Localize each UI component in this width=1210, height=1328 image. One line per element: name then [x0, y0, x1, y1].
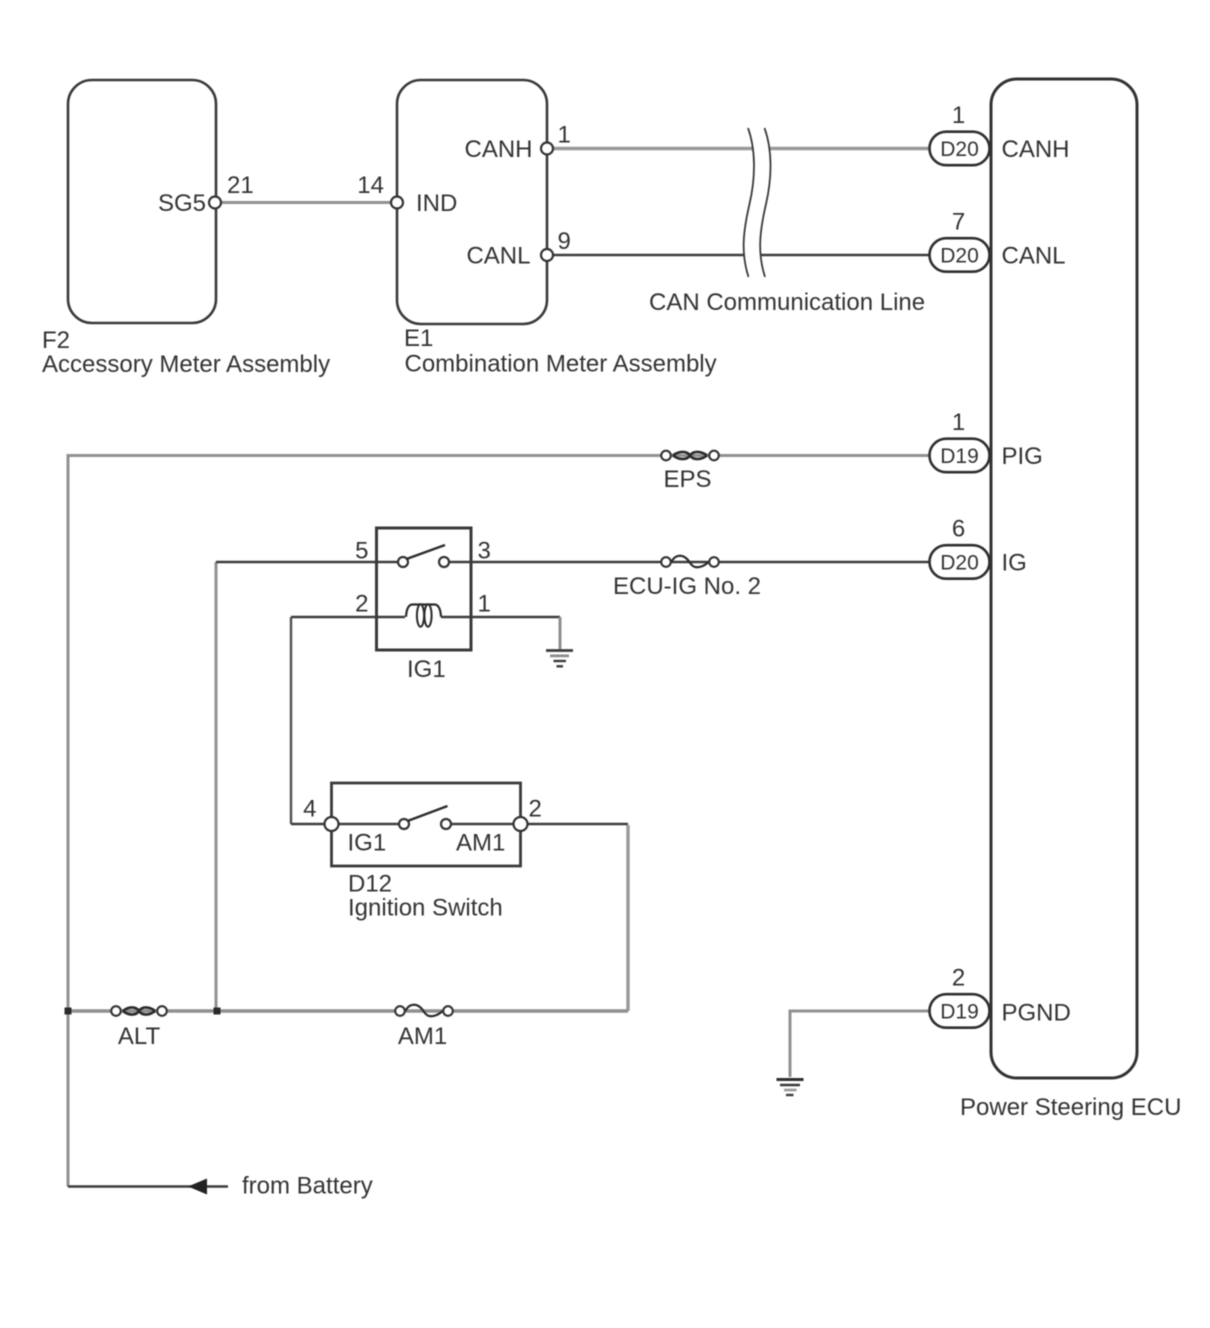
svg-text:IND: IND: [416, 190, 457, 217]
D12 switch contact left: [399, 819, 409, 829]
svg-text:1: 1: [478, 591, 491, 618]
svg-text:D20: D20: [940, 244, 979, 267]
connector D19 PIG: [930, 439, 990, 473]
wire D12 switch to pin2 and down: [446, 823, 628, 825]
pin IND circle on E1: [391, 197, 403, 209]
fuse ECU-IG No. 2: [661, 557, 671, 567]
svg-text:AM1: AM1: [398, 1023, 447, 1050]
pin CANH circle on E1: [541, 143, 553, 155]
svg-text:6: 6: [952, 516, 965, 543]
relay IG1 coil: [406, 605, 441, 617]
pin CANL circle on E1: [541, 249, 553, 261]
ground for PGND: [777, 1080, 804, 1096]
ground for relay IG1: [546, 651, 573, 667]
relay IG1 switch contact right: [439, 557, 449, 567]
fuse AM1: [395, 1006, 405, 1016]
wire SG5 to IND: [215, 201, 397, 204]
D12 switch arm: [408, 806, 448, 821]
svg-text:IG: IG: [1002, 550, 1027, 577]
svg-text:AM1: AM1: [456, 830, 505, 857]
svg-text:1: 1: [952, 102, 965, 129]
svg-text:CANH: CANH: [464, 136, 532, 163]
svg-text:IG1: IG1: [407, 656, 446, 683]
wire PGND to ground: [790, 1011, 929, 1077]
wire relay coil line: [291, 616, 405, 618]
svg-text:2: 2: [952, 965, 965, 992]
junction node at IG rail: [214, 1008, 221, 1015]
arrowhead from Battery: [188, 1179, 207, 1195]
svg-text:ALT: ALT: [118, 1023, 161, 1050]
svg-text:5: 5: [355, 538, 368, 565]
wire D12 pin4 horizontal: [291, 823, 404, 825]
D12 switch contact right: [441, 819, 451, 829]
svg-text:Ignition Switch: Ignition Switch: [348, 895, 503, 922]
wire IG vertical rail x216: [215, 562, 218, 1011]
D12 pin 2 circle: [514, 817, 528, 831]
svg-text:Combination Meter Assembly: Combination Meter Assembly: [405, 351, 717, 378]
relay IG1 switch contact left: [398, 557, 408, 567]
svg-text:14: 14: [357, 172, 384, 199]
Power Steering ECU box: [991, 79, 1137, 1078]
svg-text:9: 9: [558, 228, 571, 255]
connector E1 Combination Meter Assembly box: [397, 80, 547, 324]
svg-text:2: 2: [355, 591, 368, 618]
svg-text:PGND: PGND: [1002, 1000, 1071, 1027]
fusible link ALT: [111, 1006, 121, 1016]
connector F2 Accessory Meter Assembly box: [68, 80, 216, 323]
svg-text:D12: D12: [348, 871, 392, 898]
svg-text:2: 2: [529, 796, 542, 823]
connector D20 IG: [930, 545, 990, 579]
wire relay pin2 to D12 pin4 vertical: [290, 617, 292, 824]
svg-text:from Battery: from Battery: [242, 1173, 373, 1200]
svg-text:Power Steering ECU: Power Steering ECU: [960, 1094, 1181, 1121]
svg-text:4: 4: [303, 796, 316, 823]
svg-text:SG5: SG5: [158, 190, 206, 217]
wire IG1 ground lead: [559, 617, 562, 649]
svg-text:E1: E1: [404, 325, 433, 352]
connector D20 CANH: [930, 132, 990, 166]
svg-text:7: 7: [952, 209, 965, 236]
wire PIG rail and horizontal to D19: [68, 456, 929, 1187]
fusible link EPS: [661, 451, 671, 461]
svg-text:F2: F2: [42, 327, 70, 354]
connector D19 PGND: [930, 994, 990, 1027]
svg-text:Accessory Meter Assembly: Accessory Meter Assembly: [42, 351, 330, 378]
svg-text:1: 1: [558, 122, 571, 149]
wire CANH (E1 to D20): [547, 147, 929, 151]
svg-text:CANH: CANH: [1002, 136, 1070, 163]
svg-text:3: 3: [478, 538, 491, 565]
junction node at battery rail left: [65, 1008, 72, 1015]
relay IG1 switch arm: [407, 545, 446, 559]
svg-text:1: 1: [952, 409, 965, 436]
D12 pin 4 circle: [325, 817, 339, 831]
relay IG1 box: [377, 528, 472, 650]
svg-text:CAN Communication Line: CAN Communication Line: [649, 289, 925, 316]
CAN line break symbol: [744, 128, 771, 277]
wire IG horizontal (rail to relay to D20): [216, 561, 403, 563]
svg-text:D19: D19: [940, 445, 979, 468]
pin SG5 circle on F2: [209, 197, 221, 209]
svg-text:CANL: CANL: [1002, 243, 1066, 270]
wire CANL (E1 to D20): [547, 254, 929, 256]
svg-text:ECU-IG No. 2: ECU-IG No. 2: [613, 573, 761, 600]
svg-text:PIG: PIG: [1002, 443, 1043, 470]
ignition switch D12 box: [332, 783, 521, 866]
wire from Battery with arrow: [68, 1185, 228, 1187]
svg-text:D20: D20: [940, 138, 979, 161]
svg-text:D20: D20: [940, 551, 979, 574]
wire battery rail bottom: [68, 1009, 628, 1012]
svg-text:IG1: IG1: [348, 830, 387, 857]
svg-text:D19: D19: [940, 1000, 979, 1023]
svg-text:EPS: EPS: [663, 466, 711, 493]
connector D20 CANL: [930, 238, 990, 272]
svg-text:CANL: CANL: [466, 243, 530, 270]
svg-text:21: 21: [227, 172, 254, 199]
